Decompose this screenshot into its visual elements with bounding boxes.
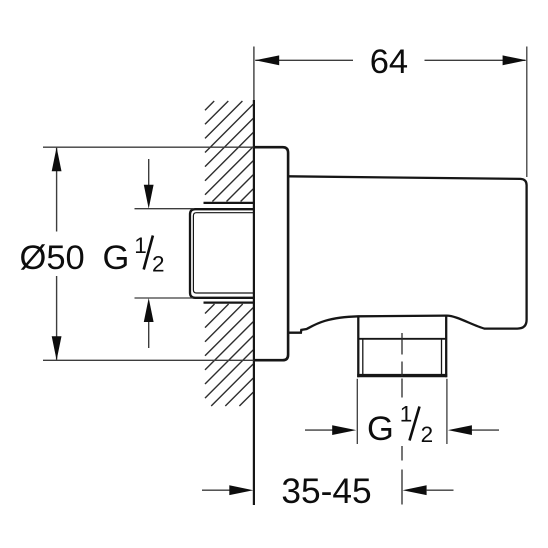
svg-text:2: 2 (421, 422, 434, 447)
svg-text:1: 1 (400, 402, 413, 427)
svg-text:35-45: 35-45 (281, 472, 371, 511)
svg-text:G: G (103, 239, 130, 277)
svg-text:64: 64 (370, 43, 408, 81)
svg-text:2: 2 (152, 252, 165, 277)
svg-text:1: 1 (134, 233, 147, 258)
svg-text:Ø50: Ø50 (20, 239, 85, 277)
svg-text:G: G (367, 410, 394, 448)
